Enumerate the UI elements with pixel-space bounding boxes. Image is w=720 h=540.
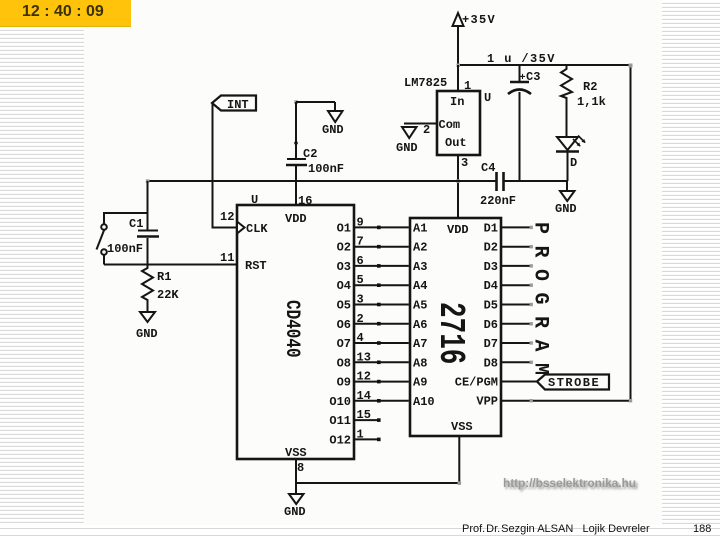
svg-text:VDD: VDD bbox=[285, 212, 307, 226]
resistor R1 22K bbox=[142, 265, 179, 313]
wire CD4040 Q3 (pin 6) row bbox=[337, 254, 412, 274]
footer rule 1 bbox=[0, 528, 720, 529]
svg-text:INT: INT bbox=[227, 98, 249, 112]
ground at C2 top bbox=[322, 102, 344, 137]
watermark http://bsselektronika.hu bbox=[503, 476, 636, 490]
svg-text:GND: GND bbox=[136, 327, 158, 341]
wire CD4040 Q11 (pin 15) row bbox=[329, 408, 380, 428]
footer page number 188 bbox=[693, 523, 711, 535]
svg-text:14: 14 bbox=[357, 389, 371, 403]
svg-text:Com: Com bbox=[439, 118, 461, 132]
svg-text:D8: D8 bbox=[484, 356, 498, 370]
wire 2716 D2 row bbox=[484, 241, 533, 255]
svg-text:9: 9 bbox=[357, 215, 364, 229]
svg-text:O3: O3 bbox=[337, 260, 351, 274]
svg-text:CE/PGM: CE/PGM bbox=[455, 376, 498, 390]
svg-text:GND: GND bbox=[396, 141, 418, 155]
svg-text:R1: R1 bbox=[157, 270, 171, 284]
svg-text:3: 3 bbox=[357, 293, 364, 307]
wire 2716 D5 row bbox=[484, 299, 533, 313]
svg-text:15: 15 bbox=[357, 408, 371, 422]
svg-text:RST: RST bbox=[245, 259, 267, 273]
wire CD4040 Q9 (pin 12) row bbox=[337, 370, 412, 390]
svg-text:1,1k: 1,1k bbox=[577, 95, 606, 109]
svg-text:D4: D4 bbox=[484, 279, 498, 293]
svg-text:O2: O2 bbox=[337, 241, 351, 255]
svg-text:100nF: 100nF bbox=[308, 162, 344, 176]
svg-text:CLK: CLK bbox=[246, 222, 268, 236]
svg-text:O8: O8 bbox=[337, 356, 351, 370]
svg-text:O10: O10 bbox=[329, 395, 351, 409]
ground below LED bbox=[555, 181, 577, 216]
svg-text:22K: 22K bbox=[157, 288, 179, 302]
svg-text:A8: A8 bbox=[413, 356, 427, 370]
svg-text:STROBE: STROBE bbox=[548, 376, 600, 390]
svg-text:O7: O7 bbox=[337, 337, 351, 351]
ground below R1 bbox=[136, 312, 158, 341]
junction +35V stem bbox=[457, 64, 461, 68]
svg-text:C3: C3 bbox=[526, 70, 540, 84]
capacitor C2 100nF bbox=[286, 100, 344, 181]
svg-text:A1: A1 bbox=[413, 221, 427, 235]
svg-text:PROGRAM: PROGRAM bbox=[529, 222, 552, 387]
wire ground rail right of C4 bbox=[504, 180, 568, 182]
wire CD4040 Q10 (pin 14) row bbox=[329, 389, 411, 409]
svg-text:O4: O4 bbox=[337, 279, 351, 293]
wire CD4040 Q1 (pin 9) row bbox=[337, 215, 412, 235]
svg-text:5: 5 bbox=[357, 273, 364, 287]
svg-text:R2: R2 bbox=[583, 80, 597, 94]
svg-text:2716: 2716 bbox=[429, 302, 469, 364]
svg-text:O1: O1 bbox=[337, 221, 351, 235]
wire CE/PGM to STROBE bbox=[455, 376, 537, 390]
wire CD4040 Q12 (pin 1) row bbox=[329, 427, 380, 447]
wire CD4040 Q2 (pin 7) row bbox=[337, 235, 412, 255]
capacitor C4 220nF bbox=[480, 161, 516, 208]
wire +35V top bus bbox=[458, 64, 631, 66]
svg-text:LM7825: LM7825 bbox=[404, 76, 447, 90]
svg-text:U: U bbox=[484, 91, 491, 105]
svg-text:GND: GND bbox=[322, 123, 344, 137]
svg-text:D5: D5 bbox=[484, 299, 498, 313]
svg-text:VPP: VPP bbox=[476, 395, 498, 409]
junction corner bbox=[458, 481, 462, 485]
wire CD4040 Q5 (pin 3) row bbox=[337, 293, 412, 313]
switch S1 bbox=[97, 213, 148, 265]
svg-text:4: 4 bbox=[357, 331, 364, 345]
wire CD4040 Q4 (pin 5) row bbox=[337, 273, 412, 293]
svg-text:+: + bbox=[520, 73, 526, 84]
wire RST line bbox=[104, 264, 237, 266]
node +35V arrow bbox=[453, 13, 497, 65]
svg-text:C4: C4 bbox=[481, 161, 495, 175]
svg-text:1 u /35V: 1 u /35V bbox=[487, 52, 556, 66]
svg-text:7: 7 bbox=[357, 235, 364, 249]
white schematic area bbox=[84, 0, 662, 525]
svg-text:8: 8 bbox=[297, 461, 304, 475]
IC 2716 EPROM bbox=[410, 218, 501, 436]
svg-text:12: 12 bbox=[357, 370, 371, 384]
wire right vertical bus to VPP bbox=[630, 65, 632, 401]
wire VDD pin 16 bbox=[296, 181, 312, 208]
IC U CD4040 bbox=[237, 205, 354, 475]
svg-text:D6: D6 bbox=[484, 318, 498, 332]
footer rule 2 bbox=[0, 535, 720, 536]
svg-text:Out: Out bbox=[445, 136, 467, 150]
svg-text:C1: C1 bbox=[129, 217, 143, 231]
wire INT to CLK bbox=[213, 104, 238, 228]
svg-text:D1: D1 bbox=[484, 221, 498, 235]
svg-text:D: D bbox=[570, 156, 577, 170]
svg-text:GND: GND bbox=[555, 202, 577, 216]
svg-text:A2: A2 bbox=[413, 241, 427, 255]
footer author text bbox=[462, 523, 650, 535]
clock text 12:40:09 bbox=[22, 3, 132, 21]
svg-text:In: In bbox=[450, 95, 464, 109]
svg-text:A6: A6 bbox=[413, 318, 427, 332]
svg-text:11: 11 bbox=[220, 251, 234, 265]
net flag STROBE bbox=[537, 375, 609, 391]
net flag INT bbox=[212, 96, 256, 113]
wire regulator pin 2 bbox=[404, 123, 437, 137]
wire CD4040 Q8 (pin 13) row bbox=[337, 350, 412, 370]
wire VPP to right bus bbox=[476, 395, 632, 409]
wire 2716 D4 row bbox=[484, 279, 533, 293]
svg-text:O5: O5 bbox=[337, 299, 351, 313]
svg-text:2: 2 bbox=[423, 123, 430, 137]
ground at regulator pin 2 bbox=[396, 127, 418, 155]
svg-text:O6: O6 bbox=[337, 318, 351, 332]
svg-text:O12: O12 bbox=[329, 433, 351, 447]
svg-text:A5: A5 bbox=[413, 299, 427, 313]
svg-text:VSS: VSS bbox=[451, 420, 473, 434]
svg-text:1: 1 bbox=[357, 427, 364, 441]
svg-text:GND: GND bbox=[284, 505, 306, 519]
capacitor C3 1u/35V bbox=[508, 65, 540, 181]
wire regulator pin 3 to 2716 VDD bbox=[458, 155, 468, 218]
junction rail left corner bbox=[146, 179, 150, 183]
wire ground run to 2716 VSS bbox=[296, 436, 459, 483]
svg-text:D3: D3 bbox=[484, 260, 498, 274]
yellow clock box bbox=[0, 0, 131, 27]
wire CD4040 Q7 (pin 4) row bbox=[337, 331, 412, 351]
svg-text:1: 1 bbox=[464, 79, 471, 93]
right striped margin bbox=[662, 0, 720, 525]
svg-text:A7: A7 bbox=[413, 337, 427, 351]
capacitor C1 100nF bbox=[107, 181, 159, 265]
svg-text:2: 2 bbox=[357, 312, 364, 326]
svg-text:3: 3 bbox=[461, 156, 468, 170]
svg-text:100nF: 100nF bbox=[107, 242, 143, 256]
left striped margin bbox=[0, 27, 84, 525]
ground bottom center bbox=[284, 483, 306, 519]
svg-text:O11: O11 bbox=[329, 414, 351, 428]
svg-text:A4: A4 bbox=[413, 279, 427, 293]
svg-text:CD4040: CD4040 bbox=[280, 300, 302, 358]
wire CD4040 Q6 (pin 2) row bbox=[337, 312, 412, 332]
wire 2716 D3 row bbox=[484, 260, 533, 274]
svg-text:O9: O9 bbox=[337, 376, 351, 390]
wire 2716 D8 row bbox=[484, 356, 533, 370]
LED D bbox=[556, 136, 586, 182]
svg-text:A10: A10 bbox=[413, 395, 435, 409]
wire VSS of CD4040 to ground bbox=[295, 459, 297, 483]
wire 2716 D1 row bbox=[484, 221, 533, 235]
svg-text:VDD: VDD bbox=[447, 223, 469, 237]
svg-text:D7: D7 bbox=[484, 337, 498, 351]
svg-text:6: 6 bbox=[357, 254, 364, 268]
svg-text:D2: D2 bbox=[484, 241, 498, 255]
svg-text:A9: A9 bbox=[413, 376, 427, 390]
wire 2716 D6 row bbox=[484, 318, 533, 332]
junction top-right corner bbox=[629, 64, 633, 68]
svg-text:+35V: +35V bbox=[462, 13, 496, 27]
svg-text:12: 12 bbox=[220, 210, 234, 224]
svg-text:C2: C2 bbox=[303, 147, 317, 161]
resistor R2 1,1k bbox=[561, 65, 606, 137]
wire 2716 D7 row bbox=[484, 337, 533, 351]
svg-text:VSS: VSS bbox=[285, 446, 307, 460]
svg-text:13: 13 bbox=[357, 350, 371, 364]
junction pin3 x rail bbox=[456, 179, 460, 183]
svg-text:A3: A3 bbox=[413, 260, 427, 274]
wire regulator pin 1 bbox=[458, 65, 471, 93]
svg-text:220nF: 220nF bbox=[480, 194, 516, 208]
wire +25V rail bbox=[148, 180, 497, 182]
regulator U LM7825 bbox=[404, 76, 491, 155]
